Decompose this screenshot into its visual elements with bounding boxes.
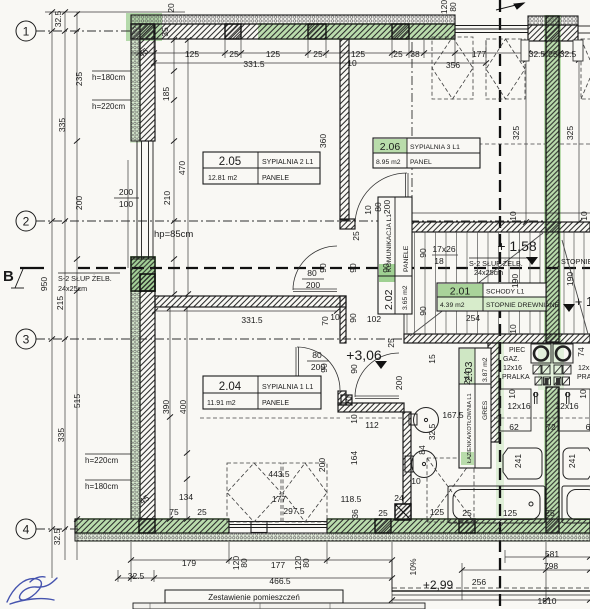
mirror unit stair treads — [563, 232, 565, 334]
svg-text:35: 35 — [160, 27, 170, 37]
svg-text:PANELE: PANELE — [262, 175, 289, 182]
svg-text:2.05: 2.05 — [219, 156, 241, 168]
svg-text:798: 798 — [544, 561, 558, 571]
svg-text:200: 200 — [119, 187, 133, 197]
svg-text:84: 84 — [417, 445, 427, 455]
svg-text:335: 335 — [56, 428, 66, 442]
svg-text:102: 102 — [367, 314, 381, 324]
green: party wall column — [544, 15, 561, 342]
room 2.04 interior chains — [169, 308, 171, 519]
stairs top wall — [404, 222, 590, 232]
svg-text:80: 80 — [239, 558, 249, 568]
svg-text:12x16: 12x16 — [555, 401, 578, 411]
svg-text:+2,99: +2,99 — [423, 578, 454, 592]
h-level marks left wall — [85, 71, 131, 480]
S-2 column labels — [58, 257, 590, 293]
svg-text:17x26: 17x26 — [432, 244, 455, 254]
svg-text:190: 190 — [510, 274, 520, 288]
svg-text:443.5: 443.5 — [268, 469, 290, 479]
green: top-left corner wall — [126, 13, 162, 41]
bottom right dims — [505, 556, 590, 558]
top wall hatched band — [131, 24, 455, 39]
level marker triangles — [526, 257, 538, 265]
svg-text:297.5: 297.5 — [283, 506, 305, 516]
svg-text:PANELE: PANELE — [262, 400, 289, 407]
door room 2.06 — [355, 173, 408, 225]
room table 2.02 (rotated) — [378, 197, 412, 314]
wall below stairs / bathroom north — [404, 334, 590, 343]
green: bottom wall band — [75, 518, 229, 534]
svg-text:B: B — [3, 268, 14, 285]
svg-text:20: 20 — [166, 3, 176, 13]
svg-text:80: 80 — [301, 558, 311, 568]
left dim chains — [51, 12, 53, 578]
svg-text:331.5: 331.5 — [241, 315, 263, 325]
washbasin — [409, 408, 439, 433]
svg-text:185: 185 — [161, 87, 171, 101]
svg-text:6: 6 — [586, 422, 590, 432]
svg-text:PRALKA: PRALKA — [577, 374, 590, 381]
svg-text:200: 200 — [306, 280, 320, 290]
bathroom door jamb corner — [338, 391, 346, 405]
wall between room 2.05 and 2.04 — [155, 296, 346, 307]
svg-text:1: 1 — [23, 25, 30, 39]
bathtub main unit — [448, 486, 545, 523]
svg-text:244: 244 — [462, 371, 472, 385]
svg-text:24: 24 — [394, 493, 404, 503]
gas boiler main — [503, 448, 542, 479]
svg-text:950: 950 — [39, 277, 49, 291]
green: left wall outer strip — [130, 28, 141, 143]
svg-text:15: 15 — [427, 354, 437, 364]
grid bubbles — [16, 21, 36, 539]
svg-text:210: 210 — [162, 191, 172, 205]
svg-text:10: 10 — [507, 389, 517, 399]
svg-text:25: 25 — [393, 49, 403, 59]
svg-text:75: 75 — [169, 507, 179, 517]
svg-text:72: 72 — [546, 422, 556, 432]
svg-text:241: 241 — [513, 454, 523, 468]
bottom dim rows — [131, 559, 392, 561]
svg-text:32.5: 32.5 — [52, 528, 62, 545]
svg-text:38: 38 — [410, 49, 420, 59]
svg-text:25: 25 — [378, 508, 388, 518]
svg-text:215: 215 — [55, 296, 65, 310]
room 2.05 interior chains — [173, 40, 175, 294]
svg-text:SYPIALNIA 3 L1: SYPIALNIA 3 L1 — [410, 144, 460, 151]
svg-text:KOMUNIKACJA L1: KOMUNIKACJA L1 — [386, 214, 393, 272]
svg-text:400: 400 — [178, 400, 188, 414]
svg-text:4.39 m2: 4.39 m2 — [440, 302, 465, 309]
svg-text:112: 112 — [365, 420, 379, 430]
svg-text:h=220cm: h=220cm — [85, 456, 118, 465]
bottom wall pillars — [139, 519, 155, 533]
svg-text:254: 254 — [466, 313, 480, 323]
svg-text:3: 3 — [23, 333, 30, 347]
bathroom north wall — [338, 403, 404, 412]
svg-text:36: 36 — [350, 509, 360, 519]
roof height dashed lines — [200, 144, 590, 418]
svg-text:10: 10 — [330, 312, 340, 322]
svg-text:177: 177 — [272, 494, 286, 504]
svg-text:ŁAZIENKA/KOTŁOWNIA L1: ŁAZIENKA/KOTŁOWNIA L1 — [467, 393, 473, 463]
room table 2.06 — [373, 138, 480, 168]
top window opening (455-528) — [455, 26, 590, 34]
svg-text:SYPIALNIA 2 L1: SYPIALNIA 2 L1 — [262, 159, 313, 166]
svg-text:PRALKA: PRALKA — [502, 374, 530, 381]
svg-text:hp=85cm: hp=85cm — [154, 229, 193, 240]
svg-text:335: 335 — [57, 118, 67, 132]
svg-text:125: 125 — [503, 508, 517, 518]
svg-text:32.5: 32.5 — [560, 49, 577, 59]
svg-text:2.01: 2.01 — [450, 286, 471, 298]
section trace line vertical (heavy dashed) — [499, 0, 501, 609]
svg-text:200: 200 — [394, 376, 404, 390]
door bathroom — [355, 353, 399, 399]
svg-text:200: 200 — [382, 200, 392, 214]
corridor west wall lower stub — [340, 296, 346, 343]
svg-text:466.5: 466.5 — [269, 576, 291, 586]
svg-text:11.91 m2: 11.91 m2 — [207, 400, 236, 407]
left window (hp=85) — [131, 141, 155, 259]
331.5 dim room 2.04 — [155, 310, 337, 312]
svg-text:125: 125 — [266, 49, 280, 59]
svg-text:256: 256 — [472, 577, 486, 587]
top dim rows — [131, 52, 578, 54]
svg-text:S-2 SŁUP ŻELB.: S-2 SŁUP ŻELB. — [469, 259, 523, 268]
svg-text:h=180cm: h=180cm — [85, 482, 118, 491]
svg-text:164: 164 — [349, 451, 359, 465]
summary table bottom — [133, 590, 425, 609]
svg-text:90: 90 — [418, 248, 428, 258]
corridor west wall upper — [340, 39, 349, 220]
bathroom east wall — [488, 343, 499, 442]
svg-text:167.5: 167.5 — [442, 410, 464, 420]
svg-text:125: 125 — [185, 49, 199, 59]
svg-text:360: 360 — [318, 134, 328, 148]
terrace outline bottom right — [392, 560, 590, 595]
svg-text:25: 25 — [229, 49, 239, 59]
svg-text:80: 80 — [312, 350, 322, 360]
party wall lower — [546, 387, 559, 533]
svg-text:24x25cm: 24x25cm — [58, 284, 87, 293]
svg-text:356: 356 — [446, 60, 460, 70]
room table 2.04 — [203, 376, 321, 409]
S-2 reinforced column on left wall — [131, 257, 155, 291]
svg-text:32.5: 32.5 — [53, 10, 63, 27]
svg-text:3.65 m2: 3.65 m2 — [402, 285, 409, 310]
S-3 column with cross brace — [395, 504, 411, 520]
svg-text:h=220cm: h=220cm — [92, 102, 125, 111]
green tint underlays — [75, 13, 590, 542]
svg-text:12x16: 12x16 — [578, 365, 590, 372]
svg-text:90: 90 — [418, 306, 428, 316]
svg-text:125: 125 — [430, 507, 444, 517]
svg-text:STOPNIE: STOPNIE — [561, 257, 590, 266]
svg-text:80: 80 — [448, 2, 458, 12]
bottom window opening — [229, 522, 327, 533]
grid axis lines (dash-dot) — [36, 31, 546, 529]
svg-text:+ 1,58: + 1,58 — [497, 238, 537, 254]
svg-text:20: 20 — [344, 396, 354, 406]
bathroom counters — [500, 389, 590, 431]
svg-text:24x25cm: 24x25cm — [474, 268, 503, 277]
svg-text:+3,06: +3,06 — [346, 347, 382, 363]
svg-text:S-2 SŁUP ŻELB.: S-2 SŁUP ŻELB. — [58, 274, 112, 283]
room table 2.01 — [437, 283, 560, 311]
svg-text:118.5: 118.5 — [341, 494, 362, 504]
svg-text:h=180cm: h=180cm — [92, 73, 125, 82]
svg-text:PANEL: PANEL — [410, 159, 432, 166]
svg-text:200: 200 — [74, 196, 84, 210]
svg-text:190: 190 — [565, 272, 575, 286]
svg-text:235: 235 — [74, 72, 84, 86]
svg-text:12x16: 12x16 — [503, 365, 522, 372]
top wall stipple strip — [131, 15, 455, 24]
svg-text:4: 4 — [23, 523, 30, 537]
svg-text:25: 25 — [313, 49, 323, 59]
svg-text:470: 470 — [177, 161, 187, 175]
svg-text:200: 200 — [317, 458, 327, 472]
bottom wall hatched band — [75, 519, 229, 533]
svg-text:90: 90 — [318, 263, 328, 273]
svg-text:3.87 m2: 3.87 m2 — [482, 357, 489, 382]
svg-text:10: 10 — [578, 389, 588, 399]
svg-text:390: 390 — [161, 400, 171, 414]
svg-text:GAZ.: GAZ. — [503, 356, 519, 363]
svg-text:62: 62 — [509, 422, 519, 432]
top wall pillar blocks — [131, 24, 154, 39]
svg-text:PANELE: PANELE — [403, 245, 410, 272]
svg-text:134: 134 — [179, 492, 193, 502]
svg-text:10: 10 — [349, 414, 359, 424]
svg-text:325: 325 — [511, 126, 521, 140]
svg-text:179: 179 — [182, 558, 196, 568]
svg-text:581: 581 — [545, 549, 559, 559]
svg-text:2.06: 2.06 — [380, 141, 401, 153]
svg-text:STOPNIE DREWNIANE: STOPNIE DREWNIANE — [486, 302, 560, 309]
svg-text:10: 10 — [411, 476, 421, 486]
svg-text:PIEC: PIEC — [509, 347, 525, 354]
room table 2.03 (rotated) — [459, 348, 491, 468]
svg-text:SCHODY L1: SCHODY L1 — [486, 289, 525, 296]
svg-text:90: 90 — [381, 263, 391, 273]
svg-text:25: 25 — [197, 507, 207, 517]
svg-text:10: 10 — [363, 205, 373, 215]
svg-text:241: 241 — [567, 454, 577, 468]
gas boiler mirror — [563, 448, 590, 479]
door room 2.05 — [293, 246, 337, 292]
svg-text:12.81 m2: 12.81 m2 — [208, 175, 237, 182]
door 2.04 hinge block — [291, 382, 301, 391]
party wall (green reinforced) upper — [546, 16, 559, 342]
svg-text:100: 100 — [119, 199, 133, 209]
bathtub mirror unit — [562, 486, 590, 523]
green: section line strip — [496, 340, 504, 525]
left wall stipple — [131, 24, 140, 141]
svg-text:10: 10 — [579, 211, 589, 221]
door room 2.04 — [296, 347, 340, 390]
signature (blue pen) — [7, 577, 57, 604]
stairs mid dims — [432, 254, 458, 256]
right side chains — [525, 60, 527, 222]
svg-text:25: 25 — [386, 338, 396, 348]
svg-text:GRES: GRES — [482, 400, 489, 420]
left wall hatch — [140, 24, 155, 141]
svg-text:10: 10 — [508, 324, 518, 334]
counter blocks with braces — [533, 365, 571, 385]
svg-text:80: 80 — [307, 268, 317, 278]
svg-text:25: 25 — [462, 508, 472, 518]
svg-text:10: 10 — [508, 211, 518, 221]
svg-text:32.5: 32.5 — [529, 49, 546, 59]
green: top wall band — [258, 23, 455, 40]
svg-text:90: 90 — [348, 263, 358, 273]
svg-text:1510: 1510 — [538, 596, 557, 606]
svg-text:2.02: 2.02 — [383, 289, 395, 310]
svg-text:Zestawienie pomieszczeń: Zestawienie pomieszczeń — [208, 593, 300, 602]
svg-text:325: 325 — [565, 126, 575, 140]
svg-text:32.5: 32.5 — [427, 423, 437, 440]
svg-text:331.5: 331.5 — [243, 59, 265, 69]
svg-text:177: 177 — [271, 560, 285, 570]
top extension stubs — [138, 40, 140, 66]
svg-text:515: 515 — [72, 394, 82, 408]
svg-text:+ 1: + 1 — [575, 294, 590, 309]
slope arrow top right — [496, 3, 524, 10]
svg-text:18: 18 — [434, 256, 444, 266]
svg-text:12x16: 12x16 — [507, 401, 530, 411]
stair walking diagonal — [410, 233, 543, 336]
svg-text:2.04: 2.04 — [219, 381, 242, 393]
svg-text:70: 70 — [320, 316, 330, 326]
section trace line B (heavy dashed horizontal) — [78, 267, 590, 269]
toilet — [405, 451, 437, 478]
svg-text:90: 90 — [349, 364, 359, 374]
top-right wall block — [528, 16, 578, 25]
svg-text:8.95 m2: 8.95 m2 — [376, 159, 401, 166]
svg-text:74: 74 — [576, 347, 586, 357]
svg-text:90: 90 — [319, 363, 329, 373]
svg-text:25: 25 — [351, 231, 361, 241]
svg-text:25: 25 — [548, 49, 558, 59]
washing machines — [531, 344, 573, 363]
svg-text:2: 2 — [23, 215, 30, 229]
svg-text:25: 25 — [545, 508, 555, 518]
green: S-2 column left — [130, 256, 156, 292]
room table 2.05 — [203, 152, 320, 184]
bathroom west wall — [403, 412, 411, 504]
svg-text:10%: 10% — [408, 558, 418, 575]
svg-text:10: 10 — [347, 58, 357, 68]
svg-text:32.5: 32.5 — [128, 571, 145, 581]
svg-text:90: 90 — [348, 313, 358, 323]
svg-text:177: 177 — [472, 49, 486, 59]
h-level labels — [85, 73, 193, 491]
bottom wall stipple strip — [75, 533, 590, 541]
svg-text:SYPIALNIA 1 L1: SYPIALNIA 1 L1 — [262, 384, 313, 391]
